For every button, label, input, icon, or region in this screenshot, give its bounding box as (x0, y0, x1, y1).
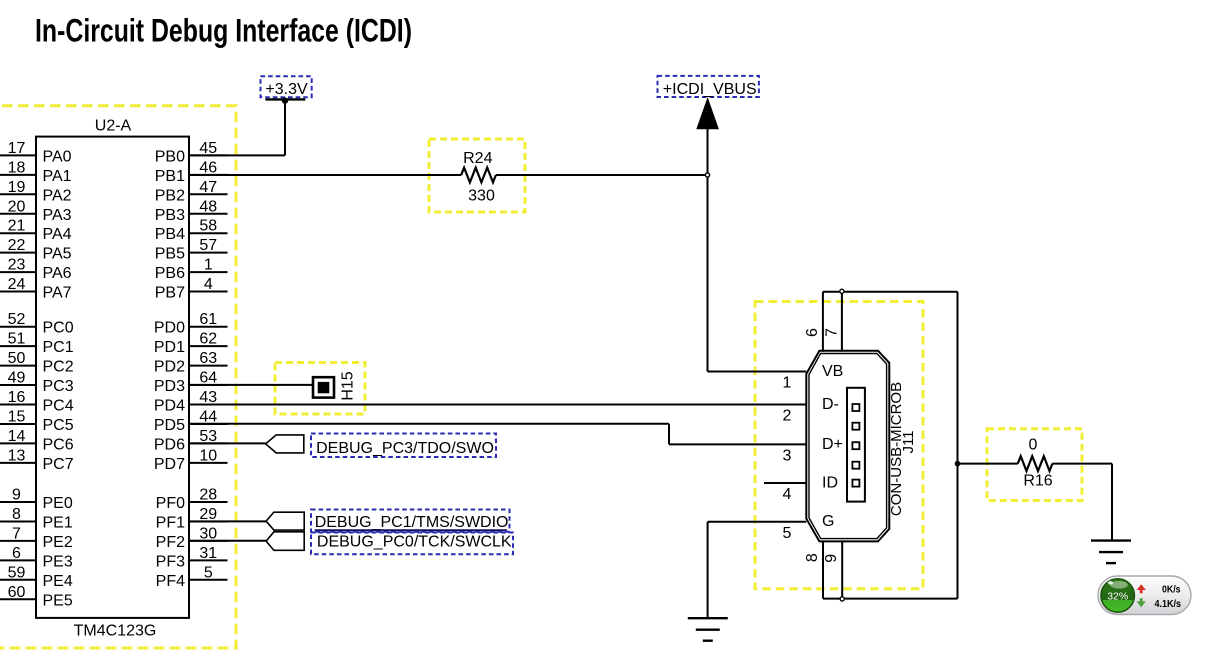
svg-text:1: 1 (204, 257, 213, 274)
svg-text:DEBUG_PC0/TCK/SWCLK: DEBUG_PC0/TCK/SWCLK (317, 534, 512, 551)
svg-text:PA4: PA4 (43, 226, 72, 243)
svg-text:PE1: PE1 (43, 514, 73, 531)
svg-text:PD2: PD2 (154, 359, 185, 376)
svg-text:PA0: PA0 (43, 148, 72, 165)
svg-text:PF4: PF4 (156, 573, 185, 590)
svg-text:PC5: PC5 (43, 417, 74, 434)
svg-text:PE4: PE4 (43, 573, 73, 590)
svg-text:57: 57 (199, 237, 217, 254)
svg-text:18: 18 (8, 159, 26, 176)
svg-text:PC1: PC1 (43, 339, 74, 356)
svg-text:PD4: PD4 (154, 398, 185, 415)
svg-text:PE3: PE3 (43, 553, 73, 570)
svg-text:PB2: PB2 (155, 187, 185, 204)
svg-text:15: 15 (8, 408, 26, 425)
svg-text:PC3: PC3 (43, 378, 74, 395)
svg-text:G: G (822, 513, 834, 530)
svg-text:5: 5 (204, 564, 213, 581)
svg-text:53: 53 (199, 428, 217, 445)
svg-text:PE2: PE2 (43, 534, 73, 551)
svg-text:43: 43 (199, 389, 217, 406)
svg-text:9: 9 (12, 487, 21, 504)
svg-text:23: 23 (8, 257, 26, 274)
svg-text:7: 7 (824, 328, 841, 337)
svg-text:4: 4 (204, 276, 213, 293)
svg-text:PD5: PD5 (154, 417, 185, 434)
svg-text:28: 28 (199, 487, 217, 504)
svg-text:D-: D- (822, 396, 839, 413)
svg-text:PB5: PB5 (155, 246, 185, 263)
svg-text:61: 61 (199, 311, 217, 328)
svg-text:0K/s: 0K/s (1162, 584, 1181, 596)
svg-text:PD6: PD6 (154, 436, 185, 453)
svg-text:6: 6 (804, 328, 821, 337)
svg-text:PB6: PB6 (155, 265, 185, 282)
svg-text:7: 7 (12, 525, 21, 542)
svg-text:48: 48 (199, 198, 217, 215)
svg-text:62: 62 (199, 331, 217, 348)
svg-text:J11: J11 (900, 430, 917, 453)
svg-text:49: 49 (8, 370, 26, 387)
svg-text:52: 52 (8, 311, 26, 328)
svg-text:6: 6 (12, 545, 21, 562)
svg-text:PF2: PF2 (156, 534, 185, 551)
svg-text:PC7: PC7 (43, 456, 74, 473)
svg-text:8: 8 (804, 553, 821, 562)
svg-text:45: 45 (199, 140, 217, 157)
svg-text:PE5: PE5 (43, 592, 73, 609)
svg-text:20: 20 (8, 198, 26, 215)
svg-text:U2-A: U2-A (95, 118, 132, 135)
svg-text:VB: VB (822, 363, 843, 380)
svg-text:3: 3 (783, 447, 792, 464)
svg-text:PA3: PA3 (43, 207, 72, 224)
svg-text:PB3: PB3 (155, 207, 185, 224)
svg-text:21: 21 (8, 218, 26, 235)
svg-text:17: 17 (8, 140, 26, 157)
svg-text:DEBUG_PC3/TDO/SWO: DEBUG_PC3/TDO/SWO (316, 440, 494, 457)
svg-text:PC4: PC4 (43, 398, 74, 415)
svg-text:R24: R24 (463, 150, 492, 167)
svg-text:ID: ID (822, 474, 838, 491)
svg-text:8: 8 (12, 506, 21, 523)
svg-text:PA2: PA2 (43, 187, 72, 204)
svg-text:14: 14 (8, 428, 26, 445)
svg-text:50: 50 (8, 350, 26, 367)
svg-text:PB0: PB0 (155, 148, 185, 165)
svg-text:13: 13 (8, 447, 26, 464)
svg-text:+ICDI_VBUS: +ICDI_VBUS (663, 81, 757, 98)
svg-text:PB4: PB4 (155, 226, 185, 243)
svg-text:63: 63 (199, 350, 217, 367)
svg-text:330: 330 (468, 187, 495, 204)
svg-text:22: 22 (8, 237, 26, 254)
svg-text:PA7: PA7 (43, 285, 72, 302)
svg-text:51: 51 (8, 331, 26, 348)
svg-text:59: 59 (8, 564, 26, 581)
svg-text:PB7: PB7 (155, 285, 185, 302)
svg-text:4.1K/s: 4.1K/s (1155, 598, 1182, 610)
svg-text:PA5: PA5 (43, 246, 72, 263)
svg-text:10: 10 (199, 447, 217, 464)
svg-text:9: 9 (823, 554, 840, 563)
svg-text:DEBUG_PC1/TMS/SWDIO: DEBUG_PC1/TMS/SWDIO (315, 514, 509, 531)
svg-text:PB1: PB1 (155, 168, 185, 185)
svg-text:+3.3V: +3.3V (265, 81, 308, 98)
svg-text:In-Circuit Debug Interface (IC: In-Circuit Debug Interface (ICDI) (35, 13, 412, 49)
svg-text:PD7: PD7 (154, 456, 185, 473)
svg-text:PD0: PD0 (154, 320, 185, 337)
svg-text:PF0: PF0 (156, 495, 185, 512)
svg-text:2: 2 (783, 408, 792, 425)
svg-text:H15: H15 (339, 371, 356, 400)
svg-text:PC2: PC2 (43, 359, 74, 376)
svg-text:1: 1 (783, 375, 792, 392)
svg-text:PD3: PD3 (154, 378, 185, 395)
svg-text:16: 16 (8, 389, 26, 406)
svg-text:PD1: PD1 (154, 339, 185, 356)
svg-text:58: 58 (199, 218, 217, 235)
svg-text:R16: R16 (1023, 473, 1052, 490)
svg-text:PE0: PE0 (43, 495, 73, 512)
svg-text:60: 60 (8, 584, 26, 601)
svg-text:31: 31 (199, 545, 217, 562)
svg-text:PC0: PC0 (43, 320, 74, 337)
svg-text:46: 46 (199, 159, 217, 176)
svg-text:32%: 32% (1107, 591, 1128, 603)
svg-text:47: 47 (199, 179, 217, 196)
svg-text:PA6: PA6 (43, 265, 72, 282)
svg-text:PF1: PF1 (156, 514, 185, 531)
svg-text:TM4C123G: TM4C123G (74, 623, 157, 640)
svg-text:PF3: PF3 (156, 553, 185, 570)
svg-text:24: 24 (8, 276, 26, 293)
svg-text:D+: D+ (822, 436, 843, 453)
svg-text:4: 4 (783, 486, 792, 503)
svg-text:5: 5 (783, 525, 792, 542)
svg-text:PA1: PA1 (43, 168, 72, 185)
svg-text:PC6: PC6 (43, 436, 74, 453)
svg-text:19: 19 (8, 179, 26, 196)
svg-text:0: 0 (1029, 436, 1038, 453)
